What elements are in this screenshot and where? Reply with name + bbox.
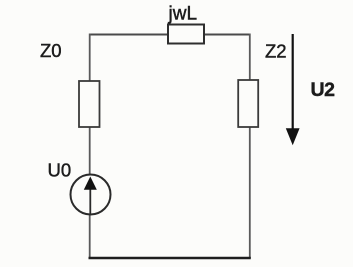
- wire: top right horizontal from inductor to right corner: [203, 34, 251, 36]
- svg-text:U0: U0: [48, 160, 72, 181]
- impedance Z0 (box on left branch): [79, 81, 100, 127]
- svg-text:U2: U2: [311, 79, 336, 101]
- svg-text:Z2: Z2: [265, 41, 287, 62]
- svg-text:jwL: jwL: [168, 4, 198, 25]
- impedance Z2 (box on right branch): [238, 80, 258, 127]
- wire: left vertical branch: [89, 34, 91, 259]
- wire: right vertical branch: [249, 34, 251, 259]
- source U0 (circle with upward arrow): [71, 175, 111, 215]
- wire: bottom horizontal return: [89, 257, 251, 259]
- svg-text:Z0: Z0: [40, 40, 62, 61]
- arrow U2 (voltage direction, pointing down): [292, 34, 294, 132]
- inductor jwL (box): [168, 25, 204, 44]
- wire: top left horizontal from node to inductor: [89, 34, 169, 36]
